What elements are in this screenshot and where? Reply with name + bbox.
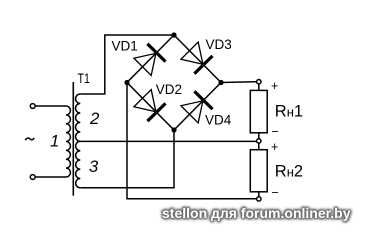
stub Rn2 top	[258, 143, 260, 150]
transformer T1 primary terminal bottom	[30, 175, 35, 180]
wire primary top	[35, 105, 66, 107]
node right	[218, 80, 223, 85]
svg-text:−: −	[272, 125, 279, 139]
resistor RH1 body	[250, 90, 267, 132]
bridge side left-top	[127, 35, 174, 83]
ac tilde symbol	[25, 138, 34, 140]
bridge side top-right	[174, 35, 221, 83]
diode VD3 triangle	[181, 42, 203, 64]
svg-text:+: +	[271, 140, 278, 154]
node bottom	[171, 127, 176, 132]
svg-text:2: 2	[89, 109, 100, 128]
svg-text:T1: T1	[78, 71, 91, 86]
diode VD3 cathode bar	[194, 56, 212, 74]
svg-text:−: −	[272, 186, 279, 200]
diode VD1 triangle	[134, 53, 156, 75]
transformer secondary winding 2	[76, 94, 81, 141]
diode VD2 cathode bar	[147, 103, 165, 121]
wire winding2 top to bridge top	[80, 35, 174, 94]
wire bridge left node down and right to Rn2 minus	[127, 83, 257, 199]
bridge side bottom-right	[174, 83, 221, 131]
diode VD2 triangle	[134, 90, 156, 112]
transformer core	[72, 82, 74, 196]
resistor RH2 body	[250, 150, 267, 192]
wire center tap to load midpoint	[80, 140, 256, 142]
diode VD1 cathode bar	[147, 44, 165, 62]
diode VD4 cathode bar	[194, 91, 212, 109]
svg-text:Rн1: Rн1	[275, 103, 303, 121]
svg-text:1: 1	[50, 131, 59, 150]
transformer T1 primary terminal top	[30, 104, 35, 109]
junction circle Rn1 top	[257, 80, 261, 84]
bridge side left-bottom	[127, 83, 174, 131]
junction circle Rn1/Rn2 mid	[257, 139, 261, 143]
svg-text:+: +	[271, 79, 278, 93]
wire primary bottom	[35, 176, 66, 178]
stub Rn1 bottom	[258, 133, 260, 139]
svg-text:VD2: VD2	[156, 82, 182, 97]
svg-text:3: 3	[89, 157, 99, 176]
diode VD4 triangle	[181, 101, 203, 123]
node left	[124, 80, 129, 85]
watermark	[162, 205, 351, 221]
junction circle Rn2 bottom	[257, 197, 261, 201]
node top	[171, 32, 176, 37]
transformer primary winding 1	[66, 106, 70, 177]
wire bridge right node to Rn1 plus	[221, 81, 257, 84]
svg-text:VD1: VD1	[112, 38, 138, 53]
stub Rn1 top	[258, 84, 260, 91]
svg-text:VD4: VD4	[205, 113, 232, 128]
svg-text:VD3: VD3	[206, 37, 232, 52]
stub Rn2 bottom	[258, 192, 260, 197]
wire winding3 bottom to bridge bottom node	[80, 130, 174, 188]
svg-text:Rн2: Rн2	[275, 163, 303, 181]
transformer secondary winding 3	[76, 141, 81, 187]
